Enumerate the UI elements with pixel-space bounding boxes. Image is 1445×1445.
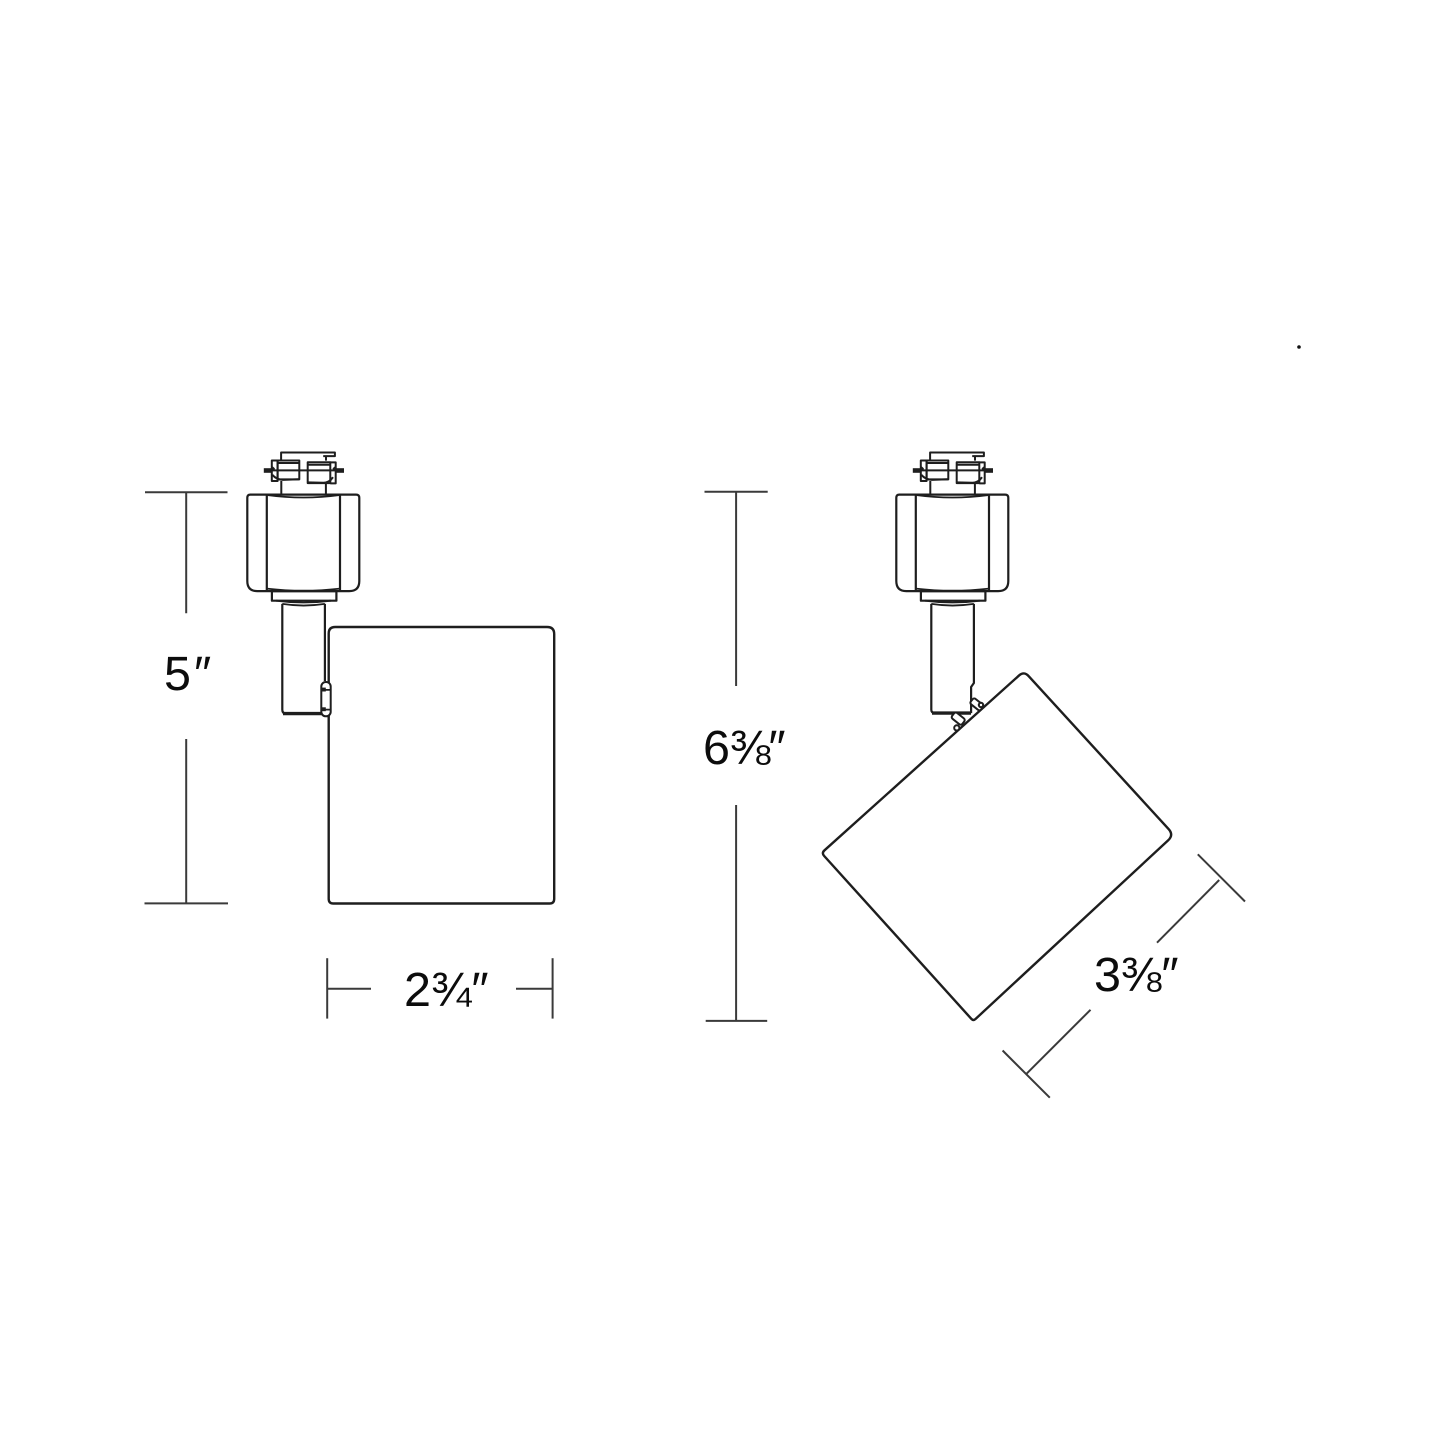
stem top arc R <box>931 604 974 606</box>
center contact line R <box>921 469 985 471</box>
dim 6-3/8 bottom cap <box>706 1020 768 1022</box>
swivel knob L <box>321 682 330 716</box>
collar bottom arc R <box>925 601 980 603</box>
tilted shade box R <box>823 673 1171 1019</box>
svg-text:3⅜″: 3⅜″ <box>1094 948 1179 1002</box>
adapter stem connectors R <box>930 481 975 495</box>
track adapter bracket L <box>281 453 335 461</box>
dim 2-3/4 line left <box>327 988 371 990</box>
swivel knob B (lower) R <box>951 712 966 726</box>
stem R <box>931 604 974 713</box>
housing (transformer box) R <box>896 495 1008 591</box>
dim 6-3/8 top cap <box>705 491 768 493</box>
stem L <box>282 604 325 714</box>
fold line left block L <box>272 475 299 480</box>
fold line right block L <box>308 477 333 483</box>
stray printing dot <box>1297 345 1301 349</box>
housing inner verticals L <box>267 495 340 591</box>
housing top inner arc R <box>916 495 989 498</box>
collar bottom arc L <box>276 601 331 603</box>
track adapter right contact block R <box>957 462 980 483</box>
track adapter right contact block L <box>308 462 331 483</box>
track adapter left contact pin R <box>913 468 922 473</box>
collar R <box>921 591 986 601</box>
dim 5 bottom cap <box>145 902 229 904</box>
dim 2-3/4 line right <box>516 988 553 990</box>
dim 3-3/8 top cap <box>1198 854 1245 901</box>
housing bottom inner arc L <box>267 589 340 591</box>
track adapter right end cap R <box>979 462 984 483</box>
dim 5 top cap <box>145 491 228 493</box>
dim 6-3/8 vertical lower <box>735 805 737 1021</box>
adapter stem connectors L <box>281 481 326 495</box>
track adapter left contact block R <box>927 461 949 480</box>
track adapter left end cap R <box>921 461 927 482</box>
dim 2-3/4 right cap <box>552 958 554 1018</box>
housing inner verticals R <box>916 495 989 591</box>
track adapter right end cap L <box>330 462 335 483</box>
housing top inner arc L <box>267 495 340 498</box>
svg-text:5″: 5″ <box>164 647 211 701</box>
svg-text:2¾″: 2¾″ <box>404 963 489 1017</box>
svg-text:6⅜″: 6⅜″ <box>703 721 786 775</box>
dim 3-3/8 line upper <box>1157 880 1219 943</box>
stem bottom thick edge L <box>283 712 325 715</box>
track adapter left end cap L <box>272 461 278 482</box>
track adapter left contact pin L <box>264 468 273 473</box>
housing bottom inner arc R <box>916 589 989 591</box>
track adapter bracket R <box>930 453 984 461</box>
track adapter right contact pin R <box>984 468 993 473</box>
swivel knob A (upper) R <box>951 698 984 731</box>
dim 3-3/8 bottom cap <box>1003 1051 1050 1098</box>
track adapter right contact pin L <box>335 468 344 473</box>
center contact line L <box>272 469 336 471</box>
dim 5 vertical upper <box>185 492 187 613</box>
dim 3-3/8 line lower <box>1026 1010 1090 1074</box>
collar L <box>272 591 337 601</box>
dim 5 vertical lower <box>185 739 187 903</box>
stem bottom thick edge R <box>932 711 971 714</box>
stem top arc L <box>282 604 325 606</box>
cylinder shade box L <box>329 627 555 904</box>
fold line right block R <box>957 477 982 483</box>
track adapter left contact block L <box>278 461 300 480</box>
housing (transformer box) L <box>247 495 359 591</box>
dim 6-3/8 vertical upper <box>735 492 737 686</box>
dim 2-3/4 left cap <box>326 958 328 1018</box>
fold line left block R <box>921 475 948 480</box>
